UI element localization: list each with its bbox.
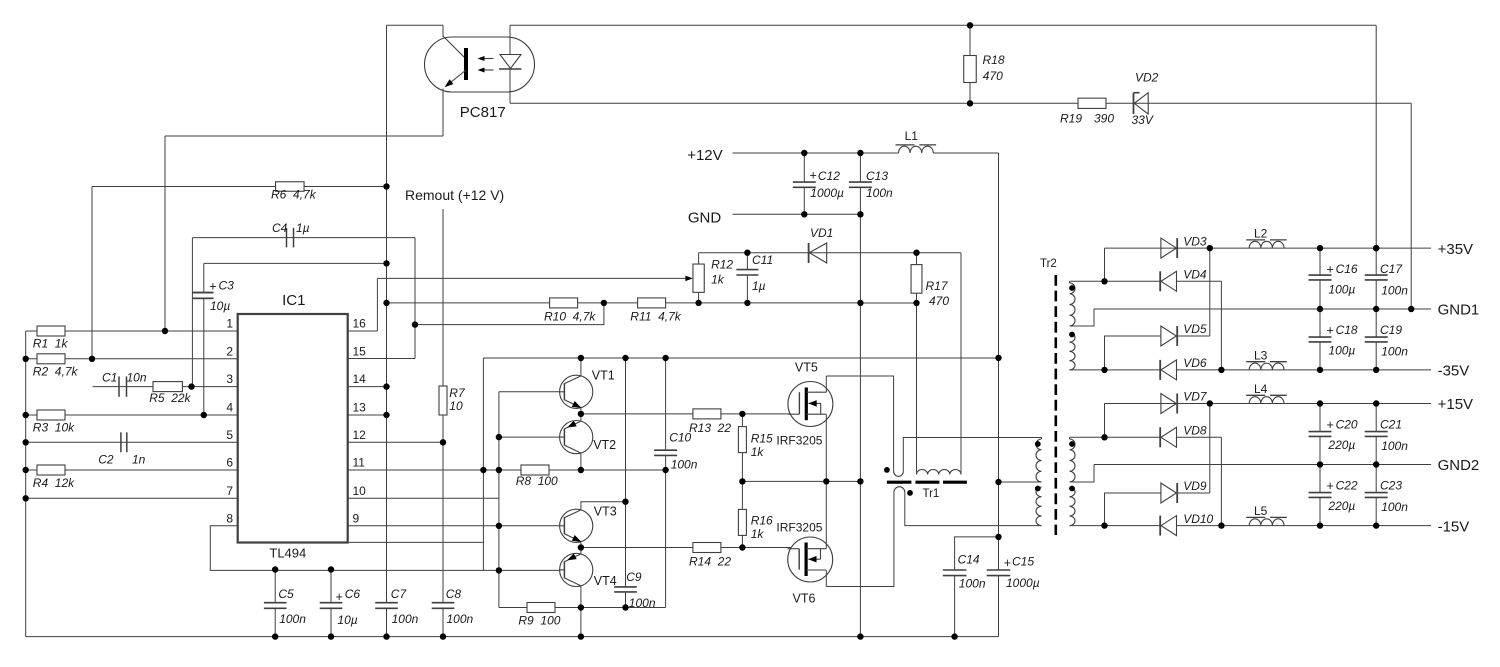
- svg-text:+: +: [1327, 324, 1334, 338]
- svg-text:PC817: PC817: [460, 104, 506, 121]
- svg-text:C20: C20: [1336, 418, 1358, 432]
- svg-text:100n: 100n: [1381, 284, 1408, 298]
- svg-text:100n: 100n: [392, 612, 419, 626]
- svg-text:R13 22: R13 22: [689, 421, 731, 435]
- svg-text:+: +: [810, 169, 817, 183]
- svg-text:4: 4: [226, 401, 233, 415]
- svg-text:GND1: GND1: [1438, 302, 1480, 319]
- svg-text:8: 8: [226, 511, 233, 525]
- svg-text:6: 6: [226, 456, 233, 470]
- svg-text:14: 14: [353, 372, 367, 386]
- svg-text:13: 13: [353, 401, 367, 415]
- svg-text:C14: C14: [958, 553, 980, 567]
- svg-text:100n: 100n: [279, 612, 306, 626]
- svg-text:C13: C13: [866, 169, 888, 183]
- svg-text:+: +: [1004, 556, 1011, 570]
- svg-text:1µ: 1µ: [296, 221, 310, 235]
- svg-text:470: 470: [983, 69, 1003, 83]
- svg-text:9: 9: [353, 511, 360, 525]
- svg-text:VD8: VD8: [1183, 424, 1207, 438]
- svg-text:R9 100: R9 100: [518, 614, 560, 628]
- svg-text:R15: R15: [751, 432, 773, 446]
- svg-text:C22: C22: [1336, 479, 1358, 493]
- svg-text:L3: L3: [1254, 349, 1268, 363]
- svg-text:3: 3: [226, 372, 233, 386]
- svg-text:33V: 33V: [1132, 113, 1154, 127]
- svg-text:VD10: VD10: [1183, 512, 1213, 526]
- svg-text:100n: 100n: [671, 458, 698, 472]
- svg-text:1µ: 1µ: [752, 279, 766, 293]
- svg-text:C23: C23: [1380, 479, 1402, 493]
- svg-text:7: 7: [226, 484, 233, 498]
- svg-text:5: 5: [226, 428, 233, 442]
- svg-text:2: 2: [226, 344, 233, 358]
- svg-text:100n: 100n: [1381, 439, 1408, 453]
- svg-text:VT3: VT3: [594, 505, 617, 519]
- svg-text:10µ: 10µ: [337, 613, 357, 627]
- svg-text:100n: 100n: [447, 612, 474, 626]
- svg-text:220µ: 220µ: [1327, 438, 1355, 452]
- svg-text:10: 10: [449, 399, 463, 413]
- svg-text:VD3: VD3: [1183, 234, 1207, 248]
- svg-text:1000µ: 1000µ: [810, 186, 844, 200]
- svg-text:VD1: VD1: [810, 226, 833, 240]
- svg-text:390: 390: [1094, 112, 1114, 126]
- svg-text:C21: C21: [1380, 418, 1402, 432]
- svg-text:R17: R17: [926, 279, 949, 293]
- svg-text:100n: 100n: [1381, 345, 1408, 359]
- svg-text:Tr2: Tr2: [1040, 258, 1057, 270]
- svg-text:L2: L2: [1254, 227, 1268, 241]
- svg-text:1k: 1k: [751, 527, 765, 541]
- svg-text:C4: C4: [272, 221, 288, 235]
- svg-text:1n: 1n: [132, 453, 146, 467]
- svg-text:15: 15: [353, 344, 367, 358]
- svg-text:+15V: +15V: [1438, 396, 1473, 413]
- svg-text:+12V: +12V: [687, 147, 722, 164]
- svg-text:220µ: 220µ: [1327, 499, 1355, 513]
- svg-text:+: +: [1327, 479, 1334, 493]
- svg-text:R19: R19: [1060, 112, 1082, 126]
- svg-text:10µ: 10µ: [210, 299, 230, 313]
- svg-text:R14 22: R14 22: [689, 555, 731, 569]
- svg-text:R12: R12: [711, 258, 733, 272]
- svg-text:VD4: VD4: [1183, 268, 1207, 282]
- svg-text:C12: C12: [818, 169, 840, 183]
- svg-text:VT1: VT1: [592, 368, 615, 382]
- svg-text:R16: R16: [751, 514, 773, 528]
- svg-text:VD5: VD5: [1183, 322, 1207, 336]
- svg-text:100µ: 100µ: [1328, 343, 1355, 357]
- svg-text:Tr1: Tr1: [923, 488, 940, 500]
- svg-text:+: +: [1327, 263, 1334, 277]
- svg-text:C8: C8: [446, 587, 462, 601]
- svg-text:VD2: VD2: [1135, 71, 1159, 85]
- svg-text:VT5: VT5: [795, 361, 818, 375]
- svg-text:IRF3205: IRF3205: [776, 434, 822, 448]
- svg-text:C19: C19: [1380, 323, 1402, 337]
- svg-text:C15: C15: [1012, 554, 1034, 568]
- svg-text:C1: C1: [102, 371, 117, 385]
- svg-text:VT6: VT6: [793, 591, 816, 605]
- svg-text:+: +: [1327, 418, 1334, 432]
- svg-text:R6 4,7k: R6 4,7k: [271, 188, 317, 202]
- svg-text:R1 1k: R1 1k: [33, 337, 69, 351]
- svg-text:IC1: IC1: [282, 292, 305, 309]
- svg-text:TL494: TL494: [269, 546, 306, 561]
- svg-text:GND: GND: [688, 210, 722, 227]
- svg-text:C11: C11: [752, 253, 773, 267]
- svg-text:+: +: [209, 280, 216, 294]
- svg-text:-15V: -15V: [1438, 518, 1470, 535]
- svg-text:C3: C3: [219, 279, 235, 293]
- svg-text:16: 16: [353, 317, 367, 331]
- svg-text:VD9: VD9: [1183, 479, 1207, 493]
- svg-text:R5 22k: R5 22k: [149, 391, 191, 405]
- svg-text:1k: 1k: [711, 272, 725, 286]
- svg-text:IRF3205: IRF3205: [776, 521, 822, 535]
- svg-text:10: 10: [353, 484, 367, 498]
- svg-text:1: 1: [226, 317, 233, 331]
- svg-text:C6: C6: [345, 587, 361, 601]
- svg-text:VT4: VT4: [594, 574, 617, 588]
- svg-text:R2 4,7k: R2 4,7k: [33, 364, 79, 378]
- svg-text:GND2: GND2: [1438, 457, 1480, 474]
- svg-text:VD6: VD6: [1183, 356, 1207, 370]
- svg-text:-35V: -35V: [1438, 363, 1470, 380]
- svg-text:12: 12: [353, 428, 367, 442]
- svg-text:C5: C5: [278, 587, 294, 601]
- svg-text:L4: L4: [1254, 382, 1268, 396]
- svg-text:100n: 100n: [1381, 500, 1408, 514]
- svg-text:470: 470: [929, 294, 949, 308]
- svg-text:100n: 100n: [959, 577, 986, 591]
- svg-text:C7: C7: [391, 587, 408, 601]
- svg-text:C9: C9: [626, 570, 642, 584]
- svg-text:R11 4,7k: R11 4,7k: [630, 310, 681, 324]
- svg-text:R8 100: R8 100: [516, 474, 558, 488]
- svg-text:+35V: +35V: [1438, 241, 1473, 258]
- svg-text:VD7: VD7: [1183, 390, 1208, 404]
- svg-text:100n: 100n: [629, 596, 656, 610]
- svg-text:L5: L5: [1254, 504, 1268, 518]
- svg-text:10n: 10n: [127, 371, 147, 385]
- svg-text:11: 11: [353, 456, 366, 470]
- svg-text:1k: 1k: [751, 445, 765, 459]
- svg-text:100µ: 100µ: [1328, 282, 1355, 296]
- svg-text:C17: C17: [1380, 262, 1403, 276]
- svg-text:+: +: [336, 590, 343, 604]
- svg-text:R3 10k: R3 10k: [33, 421, 75, 435]
- svg-text:C10: C10: [669, 431, 691, 445]
- svg-text:1000µ: 1000µ: [1006, 576, 1040, 590]
- svg-text:Remout (+12 V): Remout (+12 V): [405, 187, 504, 203]
- svg-text:C18: C18: [1336, 323, 1358, 337]
- svg-text:R18: R18: [983, 53, 1005, 67]
- svg-text:C2: C2: [98, 453, 114, 467]
- svg-text:VT2: VT2: [593, 438, 616, 452]
- svg-text:C16: C16: [1336, 262, 1358, 276]
- svg-text:L1: L1: [905, 129, 919, 143]
- svg-text:R7: R7: [449, 386, 466, 400]
- svg-text:R10 4,7k: R10 4,7k: [544, 310, 596, 324]
- svg-text:100n: 100n: [866, 186, 893, 200]
- svg-text:R4 12k: R4 12k: [33, 476, 75, 490]
